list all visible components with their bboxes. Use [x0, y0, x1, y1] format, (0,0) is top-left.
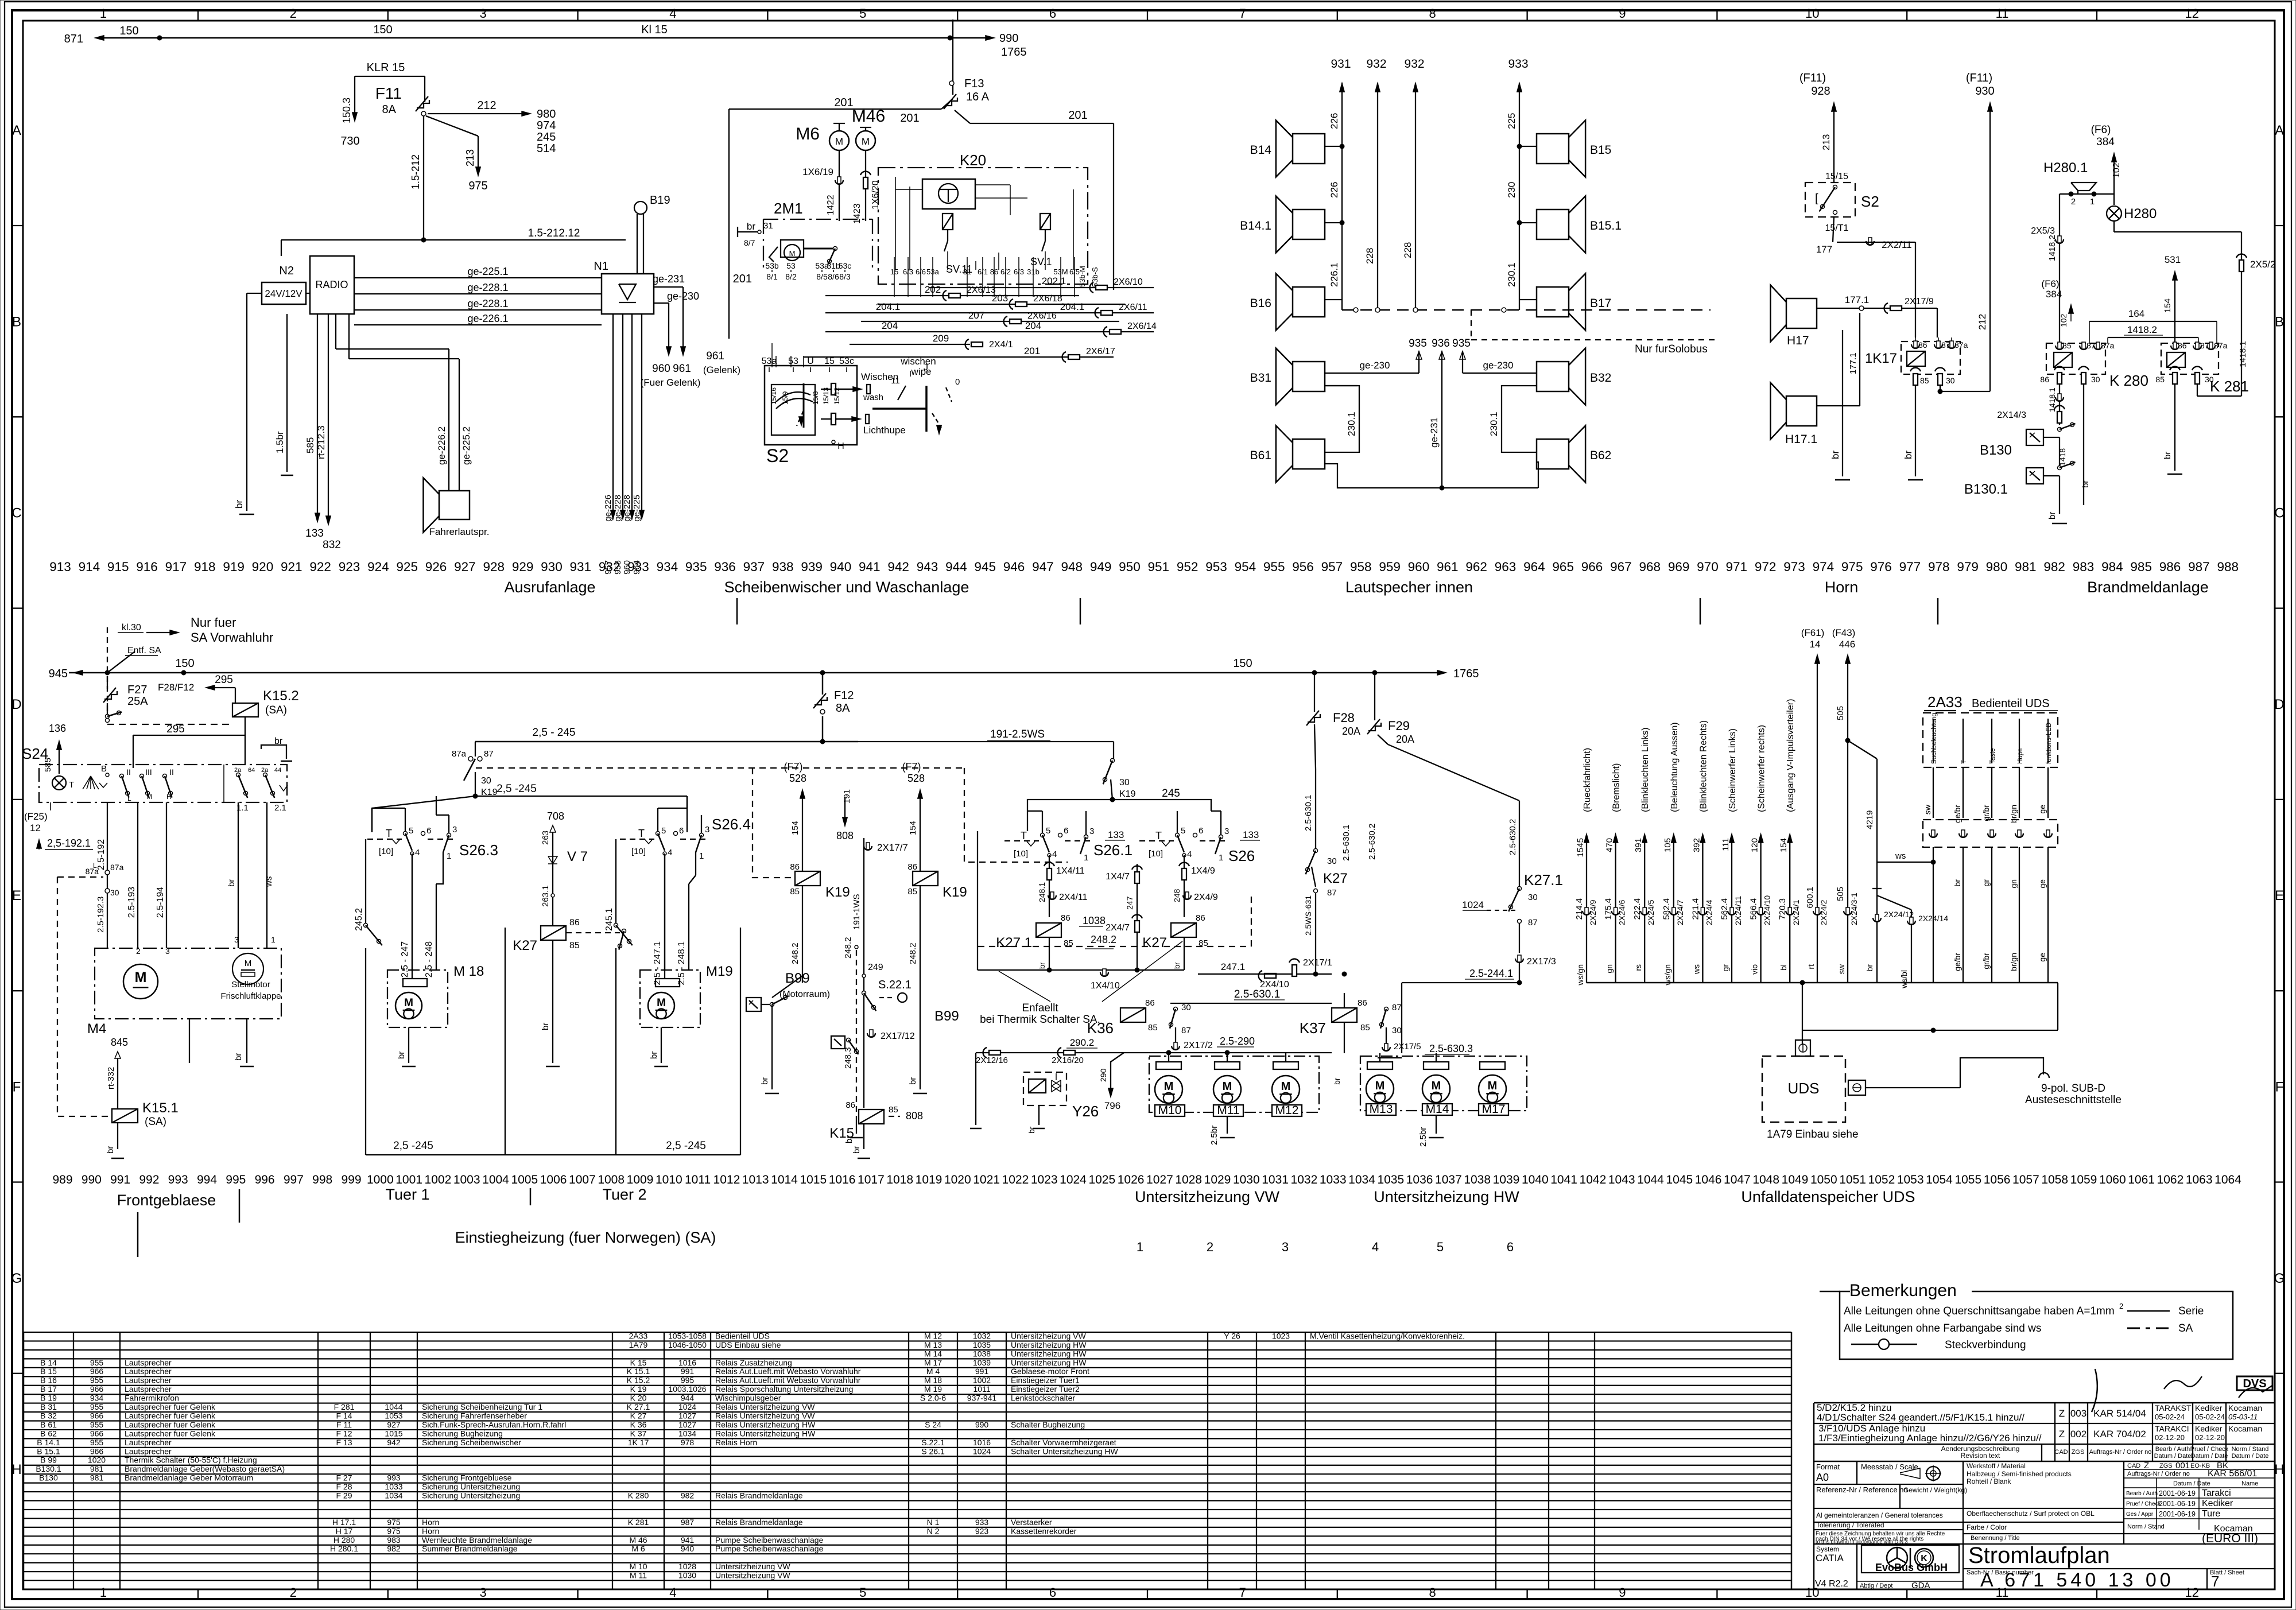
- svg-text:2.5-290: 2.5-290: [1220, 1035, 1255, 1047]
- svg-text:2: 2: [2119, 1302, 2123, 1310]
- svg-text:2: 2: [2071, 197, 2076, 207]
- svg-text:KAR 704/02: KAR 704/02: [2093, 1429, 2146, 1440]
- svg-text:CATIA: CATIA: [1816, 1553, 1844, 1564]
- svg-text:(SA): (SA): [145, 1116, 166, 1128]
- svg-text:F13: F13: [964, 77, 984, 90]
- svg-text:H 17: H 17: [336, 1526, 353, 1535]
- svg-text:br: br: [397, 1052, 406, 1059]
- svg-text:923: 923: [339, 560, 360, 574]
- svg-text:1034: 1034: [385, 1491, 402, 1500]
- svg-text:926: 926: [425, 560, 447, 574]
- svg-text:2.5br: 2.5br: [1209, 1126, 1219, 1145]
- svg-text:44: 44: [274, 767, 281, 774]
- svg-text:Fahrermikrofon: Fahrermikrofon: [125, 1394, 179, 1403]
- svg-text:G: G: [11, 1271, 22, 1286]
- svg-text:990: 990: [999, 32, 1018, 45]
- svg-text:3: 3: [1282, 1240, 1289, 1254]
- svg-text:1032: 1032: [973, 1331, 991, 1340]
- svg-text:Austeseschnittstelle: Austeseschnittstelle: [2025, 1094, 2122, 1106]
- svg-text:923: 923: [975, 1526, 989, 1535]
- svg-text:B 62: B 62: [40, 1429, 57, 1438]
- svg-text:gr: gr: [1981, 879, 1991, 887]
- svg-text:Bearb / Auth: Bearb / Auth: [2155, 1446, 2190, 1453]
- svg-text:6: 6: [1199, 826, 1203, 836]
- svg-text:1023: 1023: [1031, 1173, 1058, 1186]
- svg-text:225: 225: [1506, 113, 1517, 129]
- svg-text:B16: B16: [1250, 297, 1271, 310]
- svg-text:2.5-630.1: 2.5-630.1: [1304, 795, 1313, 831]
- svg-text:2.5-630.1: 2.5-630.1: [1341, 825, 1351, 861]
- svg-text:930: 930: [541, 560, 563, 574]
- svg-text:H: H: [837, 441, 844, 451]
- svg-text:230.1: 230.1: [1346, 412, 1357, 436]
- svg-text:982: 982: [387, 1544, 401, 1553]
- svg-text:204.1: 204.1: [1060, 301, 1085, 312]
- svg-text:M: M: [1164, 1080, 1174, 1093]
- svg-text:1012: 1012: [713, 1173, 740, 1186]
- svg-text:15/8: 15/8: [812, 391, 820, 405]
- svg-text:15/T1: 15/T1: [1825, 223, 1849, 233]
- svg-text:935: 935: [1452, 337, 1471, 350]
- svg-text:945: 945: [49, 668, 68, 680]
- svg-text:kl.30: kl.30: [122, 623, 141, 633]
- svg-text:Untersitzheizung VW: Untersitzheizung VW: [1011, 1331, 1087, 1340]
- svg-text:8/5: 8/5: [816, 272, 828, 281]
- svg-text:T: T: [386, 828, 392, 839]
- svg-text:964: 964: [1523, 560, 1545, 574]
- svg-text:212: 212: [1977, 314, 1988, 330]
- svg-text:(Scheinwerfer Links): (Scheinwerfer Links): [1728, 728, 1737, 812]
- svg-text:to this drawing in accordance: to this drawing in accordance with DIN 3: [1816, 1539, 1908, 1545]
- svg-text:Lautsprecher fuer Gelenk: Lautsprecher fuer Gelenk: [125, 1402, 216, 1411]
- svg-text:ws: ws: [1692, 964, 1701, 975]
- svg-text:955: 955: [90, 1420, 104, 1429]
- svg-text:9-pol. SUB-D: 9-pol. SUB-D: [2041, 1083, 2105, 1095]
- svg-text:154: 154: [790, 821, 800, 835]
- svg-text:201: 201: [1068, 109, 1087, 122]
- svg-text:3: 3: [479, 6, 486, 21]
- svg-text:Gewicht / Weight(kg): Gewicht / Weight(kg): [1903, 1486, 1967, 1494]
- svg-text:Ausrufanlage: Ausrufanlage: [504, 579, 595, 596]
- svg-text:ge: ge: [2038, 879, 2047, 889]
- svg-text:845: 845: [111, 1037, 128, 1048]
- svg-text:566.4: 566.4: [1749, 898, 1759, 920]
- svg-text:Datum / Date: Datum / Date: [2191, 1453, 2228, 1460]
- svg-text:1X4/10: 1X4/10: [1091, 981, 1120, 991]
- svg-text:Abtlg / Dept: Abtlg / Dept: [1860, 1582, 1892, 1589]
- svg-text:Tolerierung / Tolerated: Tolerierung / Tolerated: [1816, 1521, 1884, 1529]
- svg-text:Kediker: Kediker: [2202, 1499, 2233, 1508]
- svg-text:Lautsprecher fuer Gelenk: Lautsprecher fuer Gelenk: [125, 1411, 216, 1420]
- svg-text:M14: M14: [1426, 1103, 1449, 1116]
- svg-text:F 28: F 28: [336, 1482, 352, 1491]
- svg-text:B 16: B 16: [40, 1376, 57, 1385]
- svg-text:1055: 1055: [1954, 1173, 1981, 1186]
- svg-text:2X24/1: 2X24/1: [1791, 899, 1801, 925]
- svg-text:53c: 53c: [839, 261, 852, 270]
- svg-text:85: 85: [2155, 375, 2165, 384]
- svg-text:981: 981: [90, 1464, 104, 1473]
- svg-text:T: T: [1155, 830, 1162, 841]
- svg-text:85: 85: [1920, 376, 1929, 385]
- svg-text:505: 505: [1836, 706, 1845, 720]
- svg-text:1024: 1024: [678, 1402, 696, 1411]
- svg-text:(EURO III): (EURO III): [2202, 1532, 2258, 1545]
- svg-text:M: M: [657, 997, 666, 1009]
- svg-text:2,5 -245: 2,5 -245: [393, 1140, 433, 1152]
- svg-text:7: 7: [1239, 1585, 1246, 1600]
- svg-text:201: 201: [1024, 346, 1040, 356]
- svg-text:4: 4: [668, 848, 672, 858]
- svg-text:002: 002: [2070, 1429, 2086, 1440]
- svg-text:2.5br: 2.5br: [1418, 1127, 1428, 1147]
- svg-text:Thermik Schalter (50-55'C) f.H: Thermik Schalter (50-55'C) f.Heizung: [125, 1456, 257, 1465]
- svg-text:975: 975: [1841, 560, 1863, 574]
- svg-text:1423: 1423: [852, 203, 862, 224]
- svg-text:263: 263: [541, 831, 550, 845]
- svg-text:245.2: 245.2: [354, 908, 364, 931]
- svg-text:S24: S24: [22, 745, 48, 762]
- svg-text:86: 86: [1358, 998, 1367, 1008]
- svg-text:Datum / Date: Datum / Date: [2154, 1453, 2192, 1460]
- svg-text:2,5 - 245: 2,5 - 245: [533, 727, 576, 739]
- svg-text:961: 961: [673, 363, 691, 375]
- svg-text:87a: 87a: [452, 749, 467, 759]
- svg-text:K15.1: K15.1: [142, 1100, 179, 1116]
- svg-text:SA: SA: [2178, 1322, 2193, 1334]
- svg-text:br: br: [1038, 962, 1046, 969]
- svg-text:1016: 1016: [973, 1438, 991, 1447]
- svg-text:2A33: 2A33: [1927, 693, 1963, 711]
- svg-text:1A79: 1A79: [629, 1340, 648, 1349]
- svg-text:202.1: 202.1: [1042, 276, 1066, 286]
- svg-text:S2: S2: [1861, 193, 1879, 210]
- svg-text:966: 966: [90, 1446, 104, 1456]
- svg-text:248.3: 248.3: [843, 1047, 853, 1069]
- svg-text:2X6/18: 2X6/18: [1033, 294, 1062, 304]
- svg-text:1.5-212.12: 1.5-212.12: [528, 227, 580, 239]
- svg-text:Relais Untersitzheizung VW: Relais Untersitzheizung VW: [715, 1402, 815, 1411]
- svg-text:H 17.1: H 17.1: [332, 1518, 356, 1527]
- svg-text:Schalter Bugheizung: Schalter Bugheizung: [1011, 1420, 1085, 1429]
- svg-text:1009: 1009: [627, 1173, 654, 1186]
- svg-text:1003: 1003: [453, 1173, 480, 1186]
- svg-text:B 17: B 17: [40, 1384, 57, 1394]
- svg-text:2X6/10: 2X6/10: [1114, 277, 1143, 287]
- svg-text:H: H: [2274, 1462, 2284, 1477]
- svg-text:(Fuer Gelenk): (Fuer Gelenk): [641, 377, 701, 388]
- svg-text:942: 942: [387, 1438, 401, 1447]
- svg-text:br: br: [908, 1077, 918, 1085]
- svg-text:150: 150: [373, 24, 392, 36]
- svg-text:86: 86: [1196, 913, 1205, 923]
- svg-text:1027: 1027: [1146, 1173, 1173, 1186]
- svg-text:2X17/5: 2X17/5: [1394, 1042, 1421, 1052]
- svg-text:C: C: [2274, 506, 2284, 521]
- svg-text:1422: 1422: [826, 195, 836, 215]
- svg-text:30: 30: [1327, 856, 1337, 866]
- svg-text:B99: B99: [934, 1008, 959, 1024]
- svg-text:br: br: [1332, 1077, 1341, 1085]
- svg-text:I: I: [909, 369, 912, 379]
- svg-text:87: 87: [1327, 888, 1337, 898]
- svg-text:E: E: [12, 888, 21, 903]
- svg-text:87: 87: [1181, 1026, 1191, 1035]
- svg-text:986: 986: [2159, 560, 2181, 574]
- svg-text:295: 295: [215, 674, 233, 686]
- svg-text:384: 384: [2096, 136, 2115, 148]
- svg-text:245: 245: [537, 131, 556, 143]
- svg-text:B: B: [101, 764, 107, 774]
- svg-text:470: 470: [1605, 838, 1615, 852]
- svg-text:14: 14: [1810, 639, 1821, 650]
- svg-text:3: 3: [1224, 827, 1229, 836]
- svg-text:960: 960: [1408, 560, 1430, 574]
- svg-text:5: 5: [1181, 826, 1185, 836]
- svg-text:245.1: 245.1: [604, 908, 614, 931]
- svg-text:85: 85: [889, 1105, 898, 1115]
- svg-text:L: L: [127, 794, 131, 802]
- svg-text:ws: ws: [264, 876, 274, 887]
- svg-text:1K 17: 1K 17: [628, 1438, 649, 1447]
- svg-text:(Blinkleuchten Rechts): (Blinkleuchten Rechts): [1698, 720, 1708, 812]
- svg-text:1035: 1035: [1377, 1173, 1404, 1186]
- svg-text:8A: 8A: [382, 103, 397, 116]
- svg-text:N1: N1: [594, 260, 608, 273]
- svg-text:1013: 1013: [742, 1173, 769, 1186]
- svg-text:940: 940: [830, 560, 852, 574]
- svg-text:K19: K19: [943, 884, 967, 900]
- svg-text:Kocaman: Kocaman: [2228, 1424, 2262, 1433]
- svg-text:1019: 1019: [916, 1173, 943, 1186]
- svg-text:ge-225.1: ge-225.1: [467, 266, 508, 277]
- svg-text:136: 136: [49, 723, 66, 734]
- svg-text:M: M: [789, 249, 796, 258]
- svg-text:941: 941: [681, 1535, 695, 1545]
- svg-text:87a: 87a: [2214, 341, 2228, 350]
- svg-text:971: 971: [1726, 560, 1748, 574]
- svg-text:Sicherung Fahrerfenserheber: Sicherung Fahrerfenserheber: [422, 1411, 527, 1420]
- svg-text:H 280: H 280: [333, 1535, 355, 1545]
- svg-text:1062: 1062: [2157, 1173, 2184, 1186]
- svg-text:B32: B32: [1590, 371, 1611, 385]
- svg-text:M: M: [1432, 1080, 1441, 1092]
- svg-text:7: 7: [1239, 6, 1246, 21]
- svg-text:M 6: M 6: [631, 1544, 645, 1553]
- svg-text:531: 531: [2165, 254, 2181, 265]
- svg-text:Summer Brandmeldanlage: Summer Brandmeldanlage: [422, 1544, 518, 1553]
- svg-text:rs: rs: [1634, 964, 1643, 971]
- svg-text:Kediker: Kediker: [2195, 1424, 2223, 1433]
- svg-text:961: 961: [1437, 560, 1459, 574]
- svg-text:2X16/20: 2X16/20: [1052, 1056, 1084, 1065]
- svg-text:br: br: [2047, 512, 2057, 519]
- svg-text:1020: 1020: [944, 1173, 971, 1186]
- svg-text:F 12: F 12: [336, 1429, 352, 1438]
- svg-text:15/9: 15/9: [781, 391, 789, 405]
- svg-text:Horn: Horn: [1825, 579, 1859, 596]
- svg-text:1025: 1025: [1088, 1173, 1115, 1186]
- svg-text:85: 85: [790, 887, 800, 897]
- svg-text:1063: 1063: [2186, 1173, 2213, 1186]
- svg-text:B 14: B 14: [40, 1358, 57, 1367]
- svg-text:M: M: [1281, 1080, 1291, 1093]
- svg-text:1A79 Einbau siehe: 1A79 Einbau siehe: [1767, 1128, 1859, 1140]
- svg-text:Werkstoff / Material: Werkstoff / Material: [1967, 1462, 2026, 1470]
- svg-text:1039: 1039: [1493, 1173, 1520, 1186]
- svg-text:2001-06-19: 2001-06-19: [2159, 1489, 2196, 1498]
- svg-text:973: 973: [1783, 560, 1805, 574]
- svg-text:1: 1: [447, 851, 451, 861]
- svg-text:C: C: [11, 506, 21, 521]
- svg-text:105: 105: [1663, 838, 1673, 852]
- svg-text:Fahrerlautspr.: Fahrerlautspr.: [429, 526, 490, 537]
- svg-text:Untersitzheizung VW: Untersitzheizung VW: [1135, 1188, 1280, 1205]
- svg-text:6: 6: [1049, 6, 1056, 21]
- svg-text:979: 979: [1957, 560, 1979, 574]
- svg-text:gr: gr: [1721, 964, 1730, 972]
- svg-text:1030: 1030: [678, 1571, 696, 1580]
- svg-text:177: 177: [1816, 244, 1832, 255]
- svg-text:K37: K37: [1300, 1019, 1326, 1037]
- svg-text:[10]: [10]: [1149, 849, 1163, 859]
- svg-text:Kl 15: Kl 15: [641, 24, 668, 36]
- svg-text:M 17: M 17: [924, 1358, 942, 1367]
- svg-text:204: 204: [882, 320, 898, 331]
- svg-text:2X17/1: 2X17/1: [1303, 958, 1332, 968]
- svg-text:T: T: [1961, 760, 1968, 764]
- svg-text:1/F3/Eintiegheizung Anlage hin: 1/F3/Eintiegheizung Anlage hinzu//2/G6/Y…: [1818, 1433, 2042, 1444]
- svg-text:M 10: M 10: [629, 1562, 647, 1571]
- svg-text:562.4: 562.4: [1720, 898, 1729, 920]
- svg-text:Untersitzheizung VW: Untersitzheizung VW: [715, 1571, 791, 1580]
- svg-text:207: 207: [968, 310, 984, 321]
- svg-text:CAD: CAD: [2054, 1449, 2068, 1456]
- svg-text:4: 4: [415, 848, 420, 858]
- svg-text:4/D1/Schalter S24 geandert.//5: 4/D1/Schalter S24 geandert.//5/F1/K15.1 …: [1817, 1412, 2024, 1423]
- svg-text:A 671 540 13 00: A 671 540 13 00: [1980, 1569, 2174, 1591]
- svg-text:2X17/3: 2X17/3: [1527, 957, 1556, 967]
- svg-text:53c: 53c: [839, 356, 854, 366]
- svg-text:1002: 1002: [973, 1376, 991, 1385]
- svg-text:993: 993: [387, 1473, 401, 1483]
- svg-text:133: 133: [1108, 829, 1124, 840]
- svg-text:213: 213: [1821, 134, 1832, 150]
- svg-text:992: 992: [139, 1173, 159, 1186]
- svg-text:948: 948: [1061, 560, 1083, 574]
- svg-text:228: 228: [1402, 242, 1413, 258]
- svg-text:1015: 1015: [800, 1173, 827, 1186]
- svg-text:932: 932: [1404, 57, 1424, 71]
- svg-text:1032: 1032: [1291, 1173, 1318, 1186]
- svg-text:966: 966: [90, 1429, 104, 1438]
- svg-text:B 15.1: B 15.1: [37, 1446, 60, 1456]
- svg-text:87: 87: [484, 749, 494, 759]
- svg-text:K 280: K 280: [628, 1491, 649, 1500]
- svg-text:Lenkstockschalter: Lenkstockschalter: [1011, 1394, 1075, 1403]
- svg-text:5: 5: [1046, 826, 1050, 836]
- svg-text:02-12-20: 02-12-20: [2155, 1433, 2185, 1442]
- svg-text:978: 978: [681, 1438, 695, 1447]
- svg-text:Meesstab / Scale: Meesstab / Scale: [1861, 1462, 1918, 1471]
- svg-text:KAR 566/01: KAR 566/01: [2208, 1469, 2257, 1479]
- svg-text:1039: 1039: [973, 1358, 991, 1367]
- svg-text:230.1: 230.1: [1488, 412, 1499, 436]
- svg-text:977: 977: [1899, 560, 1921, 574]
- svg-text:1.5-212: 1.5-212: [410, 154, 421, 189]
- svg-text:20A: 20A: [1396, 734, 1414, 745]
- svg-text:245: 245: [1162, 787, 1180, 800]
- svg-text:Ture: Ture: [2202, 1509, 2220, 1519]
- svg-text:(F11): (F11): [1966, 72, 1992, 84]
- svg-text:2,5 -245: 2,5 -245: [666, 1140, 706, 1152]
- svg-text:Benennung / Title: Benennung / Title: [1971, 1535, 2020, 1542]
- svg-text:955: 955: [90, 1402, 104, 1411]
- svg-text:85: 85: [1360, 1023, 1370, 1033]
- svg-text:(F7): (F7): [784, 761, 803, 773]
- svg-text:1: 1: [699, 851, 704, 861]
- svg-text:ge-225: ge-225: [632, 495, 642, 522]
- svg-text:ZGS: ZGS: [2072, 1449, 2085, 1456]
- svg-text:86: 86: [2040, 375, 2049, 384]
- svg-text:934: 934: [657, 560, 678, 574]
- svg-text:2X4/7: 2X4/7: [1106, 923, 1130, 933]
- svg-text:936: 936: [1432, 337, 1450, 350]
- svg-text:1034: 1034: [1348, 1173, 1375, 1186]
- svg-text:M17: M17: [1482, 1103, 1506, 1116]
- svg-text:1014: 1014: [771, 1173, 798, 1186]
- svg-text:1021: 1021: [973, 1173, 1000, 1186]
- svg-text:br: br: [106, 1146, 115, 1154]
- svg-text:N2: N2: [279, 265, 294, 277]
- svg-text:H280: H280: [2124, 206, 2157, 222]
- svg-text:154: 154: [908, 821, 918, 835]
- svg-text:B 15: B 15: [40, 1367, 57, 1376]
- svg-text:1033: 1033: [385, 1482, 402, 1491]
- svg-text:987: 987: [681, 1518, 695, 1527]
- svg-text:956: 956: [1292, 560, 1314, 574]
- svg-text:87a: 87a: [1954, 340, 1968, 350]
- svg-text:2X24/6: 2X24/6: [1618, 899, 1627, 925]
- svg-text:2.5-244.1: 2.5-244.1: [1469, 968, 1513, 979]
- svg-text:1048: 1048: [1752, 1173, 1779, 1186]
- svg-text:Sich.Funk-Sprech-Ausrufan.Horn: Sich.Funk-Sprech-Ausrufan.Horn.R.fahrl: [422, 1420, 566, 1429]
- svg-text:31: 31: [763, 221, 773, 231]
- svg-text:915: 915: [107, 560, 129, 574]
- svg-text:H280.1: H280.1: [2043, 160, 2088, 176]
- svg-text:br: br: [234, 1053, 243, 1061]
- svg-text:H17: H17: [1787, 334, 1809, 347]
- svg-text:226: 226: [1329, 182, 1340, 198]
- svg-text:914: 914: [79, 560, 100, 574]
- svg-text:1033: 1033: [1320, 1173, 1347, 1186]
- svg-text:Halbzeug / Semi-finished produ: Halbzeug / Semi-finished products: [1967, 1470, 2072, 1478]
- svg-text:222.4: 222.4: [1632, 898, 1642, 920]
- svg-text:003: 003: [2070, 1408, 2086, 1419]
- svg-text:gn: gn: [2009, 879, 2018, 889]
- svg-text:Schalter Untersitzheizung HW: Schalter Untersitzheizung HW: [1011, 1446, 1119, 1456]
- svg-text:1X4/11: 1X4/11: [1056, 866, 1085, 876]
- svg-text:1X4/9: 1X4/9: [1191, 866, 1215, 876]
- svg-text:248.1: 248.1: [1037, 882, 1046, 902]
- svg-text:955: 955: [1263, 560, 1285, 574]
- svg-text:974: 974: [537, 119, 556, 132]
- svg-text:2: 2: [290, 6, 297, 21]
- svg-text:(Bremslicht): (Bremslicht): [1612, 763, 1622, 812]
- svg-text:2X14/3: 2X14/3: [1997, 410, 2026, 420]
- svg-text:[10]: [10]: [1014, 849, 1028, 859]
- svg-text:204: 204: [1025, 320, 1041, 331]
